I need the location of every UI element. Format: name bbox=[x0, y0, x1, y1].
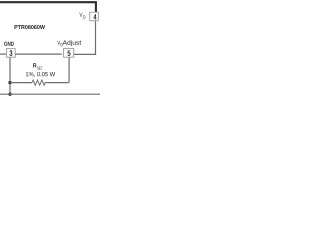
pin box 3 (GND) bbox=[6, 49, 15, 58]
pin box 4 (VO) bbox=[90, 12, 99, 21]
label VO Adjust (V) bbox=[57, 41, 60, 45]
pin number 4 bbox=[93, 14, 96, 19]
junction node at bottom rail bbox=[8, 93, 11, 96]
wire: pin4 to node below (vertical) bbox=[95, 21, 97, 55]
wire: VO output rail (top, thick) bbox=[0, 2, 96, 12]
label RSET (sub SET) bbox=[37, 67, 43, 70]
pin number 3 bbox=[9, 50, 12, 56]
wire: pin5 down to RSET right lead bbox=[68, 57, 70, 82]
text PTR08060W bbox=[14, 25, 45, 29]
label VO Adjust (Adjust) bbox=[63, 40, 82, 46]
pin box 5 (VO Adjust) bbox=[64, 49, 74, 58]
resistor RSET right lead bbox=[45, 82, 69, 84]
wire: GND rail right of pin 3 bbox=[15, 53, 62, 55]
wire: pin3 down to bottom rail bbox=[9, 57, 11, 94]
label VO (sub O) bbox=[83, 15, 85, 18]
label RSET (R) bbox=[33, 63, 36, 67]
wire: node to pin5 right side (horizontal) bbox=[74, 53, 96, 55]
text GND bbox=[4, 42, 14, 46]
label VO Adjust (sub O) bbox=[60, 43, 62, 46]
wire: bottom GND rail bbox=[0, 93, 100, 95]
resistor RSET zigzag body bbox=[32, 80, 45, 85]
label RSET value bbox=[26, 72, 55, 77]
junction node at RSET left lead bbox=[8, 81, 11, 84]
resistor RSET left lead bbox=[10, 82, 32, 84]
label VO (V) bbox=[79, 13, 82, 17]
pin number 5 bbox=[67, 50, 70, 56]
wire: GND rail left of pin 3 bbox=[0, 53, 6, 55]
